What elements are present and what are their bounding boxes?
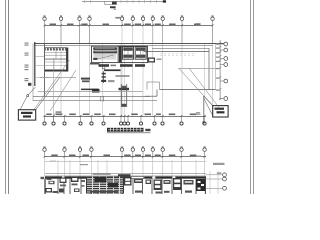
riser fitting dark blob bbox=[101, 80, 106, 82]
stair inner line 1 bbox=[45, 52, 67, 54]
small marks room3-4 gap bbox=[81, 180, 86, 182]
small label bbox=[111, 65, 117, 67]
roof left inner edge bbox=[44, 44, 46, 96]
bottom plan main dark wall band bbox=[45, 176, 206, 178]
bottom plan dimension line bbox=[45, 156, 207, 158]
left callout text row1 bbox=[21, 112, 33, 114]
dark segment at duct top bbox=[119, 88, 130, 90]
landing rect below stair bbox=[45, 59, 67, 71]
roof slope diagonal right B bbox=[189, 68, 219, 108]
label text under shaft 1 bbox=[120, 64, 133, 67]
left border outer line bbox=[5, 0, 7, 194]
left wing hline 1 bbox=[35, 55, 45, 57]
text above tick bbox=[196, 112, 200, 113]
machine room divider wall line bbox=[116, 46, 118, 62]
left callout box bbox=[18, 110, 35, 120]
dark filled block (shaft) bbox=[92, 89, 100, 93]
roof right edge outer bbox=[215, 44, 217, 90]
bottom dim line ticks bbox=[44, 156, 46, 158]
stair diagonal bbox=[96, 55, 113, 59]
hline y92 long bbox=[38, 91, 143, 93]
right border outer line bbox=[253, 0, 255, 194]
dark horizontal segment lower center bbox=[81, 89, 98, 91]
top detail end dot bbox=[163, 0, 166, 2]
right dimension vertical line bbox=[219, 40, 221, 100]
left stem tick bbox=[54, 113, 63, 115]
label text under machine room left bbox=[99, 64, 110, 67]
landing inner line bbox=[45, 65, 67, 67]
note text right of riser bbox=[116, 75, 130, 77]
left callout upper leader bbox=[28, 87, 35, 94]
roof step vertical bbox=[156, 90, 158, 97]
top plan lower dimension line bbox=[45, 116, 207, 118]
left dimension column texts bbox=[25, 43, 29, 44]
small shaft room 1 bbox=[123, 47, 134, 60]
roof lower-left bottom edge bbox=[33, 96, 150, 98]
roof left edge wall (dark) bbox=[34, 42, 36, 86]
top detail ticks bbox=[84, 0, 86, 3]
stair block hatched top band bbox=[45, 48, 66, 50]
top detail section line bbox=[82, 0, 165, 2]
left wing hline 3 bbox=[35, 76, 50, 78]
text row B left-center bbox=[82, 80, 90, 82]
roof stepped bottom edge bbox=[160, 89, 216, 91]
machine room stair hatch (light) bbox=[94, 54, 117, 56]
wall offset line A bbox=[45, 173, 206, 175]
top detail box dark hatch bbox=[112, 2, 116, 5]
dark vertical wall right of stair bbox=[66, 48, 68, 72]
riser valve 1 bbox=[102, 73, 106, 75]
left dim dark mark bbox=[28, 83, 31, 86]
roof step hline y82 bbox=[147, 81, 160, 83]
top plan grid bubbles row (top) bbox=[43, 17, 46, 20]
dark mark bottom-left of machine room bbox=[93, 58, 97, 60]
roof top edge line 2 bbox=[34, 45, 213, 47]
dark wall segment center bbox=[104, 69, 121, 71]
top detail label small text bbox=[114, 9, 116, 10]
bottom plan vertical grid lines bbox=[44, 157, 46, 176]
small text above wall bbox=[93, 173, 111, 175]
balcony line upper bbox=[45, 161, 206, 163]
roof step vline x159 bbox=[159, 82, 161, 90]
dark end room block bbox=[196, 179, 205, 191]
left wing hline 2 bbox=[35, 65, 45, 67]
stair block outline bbox=[45, 48, 67, 60]
roof right edge main bbox=[208, 48, 210, 89]
right dim ticks and texts bbox=[219, 42, 221, 44]
machine room hatched text block row1 bbox=[93, 47, 117, 50]
note text above dim line bbox=[115, 17, 121, 19]
right callout box bbox=[213, 106, 228, 117]
top dim line ticks bbox=[44, 24, 46, 26]
roof lowest outline line bbox=[33, 100, 157, 102]
top plan upper dimension line bbox=[45, 25, 214, 27]
gray text right of small structure bbox=[157, 59, 162, 61]
stair inner line 2 bbox=[45, 54, 67, 56]
right callout text row1 bbox=[215, 108, 225, 110]
small vert pair a bbox=[100, 96, 102, 102]
tall duct rect center bbox=[120, 84, 122, 107]
label text under shaft 2 bbox=[135, 64, 145, 67]
left callout long leader bbox=[36, 77, 60, 110]
roof slope diagonal right A bbox=[179, 68, 213, 106]
top plan vertical grid lines (bottom set) bbox=[102, 44, 104, 116]
roof right top line A bbox=[152, 48, 209, 50]
right side axis bubbles bbox=[224, 42, 228, 46]
right vertical tie lines bbox=[209, 171, 211, 194]
left callout text row2 bbox=[23, 115, 31, 117]
hline y77 left wing bbox=[40, 77, 76, 79]
small roof structure right of machine room bbox=[148, 58, 155, 63]
landing inner line 0 bbox=[45, 61, 67, 63]
title underline bbox=[107, 132, 151, 134]
title scale 1:50 bbox=[145, 129, 150, 131]
wall offset line B bbox=[45, 175, 206, 177]
bottom plan room walls vertical bbox=[44, 179, 46, 194]
machine room divider wall (thick) bbox=[118, 47, 121, 63]
small vert pair b bbox=[102, 96, 104, 102]
roof step vline x147 bbox=[146, 82, 148, 90]
small dashes above wall left bbox=[80, 164, 88, 165]
roof top edge line 1 bbox=[34, 43, 224, 45]
right end dim number bbox=[196, 23, 201, 24]
small text left of labels bbox=[90, 63, 100, 65]
room fixtures / furniture dark blobs bbox=[47, 177, 52, 180]
top detail box bbox=[105, 1, 117, 4]
small shaft room 2 bbox=[135, 47, 146, 60]
left callout circle bbox=[27, 95, 29, 97]
roof slope diagonal left A bbox=[33, 60, 70, 111]
machine room hatched text block row2 bbox=[93, 51, 117, 54]
right callout leader B bbox=[204, 98, 213, 116]
left stem line x53 bbox=[53, 58, 55, 122]
riser valve 2 bbox=[102, 76, 106, 78]
small text block center bbox=[108, 80, 115, 82]
bottom plan grid bubbles row bbox=[43, 148, 46, 151]
top dim numbers bbox=[50, 24, 57, 26]
bottom plan extra verticals bbox=[57, 160, 59, 176]
pipe riser vertical bbox=[103, 71, 105, 83]
left wing vertical bbox=[32, 44, 34, 101]
dim text above right ticks bbox=[217, 172, 222, 173]
top grid dark stubs above roof bbox=[44, 25, 46, 43]
bottom plan dim numbers bbox=[51, 155, 58, 157]
left edge tick marks bbox=[41, 177, 45, 179]
landing divider vertical bbox=[53, 59, 55, 71]
right callout leader A bbox=[204, 96, 213, 106]
ridge dash line 1 bbox=[160, 53, 196, 55]
machine room outer walls bbox=[92, 46, 148, 62]
top plan bottom bubble row bbox=[43, 122, 46, 125]
left stem text bbox=[56, 111, 62, 113]
wall protrusion above band bbox=[118, 174, 131, 176]
left callout lower leader bbox=[20, 97, 27, 110]
top plan lower dim ticks bbox=[44, 115, 46, 117]
note text right of dim line bbox=[213, 163, 225, 165]
dark wall line under landing bbox=[45, 70, 67, 72]
left border inner line bbox=[8, 0, 10, 194]
stair core dense text block bbox=[86, 177, 124, 194]
right callout vertical line bbox=[203, 96, 205, 121]
lower dim numbers bbox=[46, 114, 51, 116]
small text top of right room bbox=[197, 156, 202, 157]
roof right top line B bbox=[144, 51, 210, 53]
roof step bottom bbox=[145, 95, 157, 97]
stair divider vertical bbox=[55, 48, 57, 60]
roof section line y68 bbox=[178, 68, 215, 70]
ridge dash line 2 bbox=[160, 55, 196, 57]
drawing title text bbox=[107, 128, 144, 132]
text row bottom of stair bbox=[90, 191, 118, 193]
top detail label text bbox=[110, 6, 116, 8]
text row A left-center bbox=[81, 78, 90, 80]
pipe riser circle bbox=[102, 66, 105, 69]
top plan vertical grid lines bbox=[44, 25, 46, 116]
bottom plan right side bubbles bbox=[223, 173, 227, 177]
roof slope diagonal left B bbox=[50, 70, 76, 111]
faint text above plan A bbox=[50, 161, 56, 162]
right border inner line bbox=[250, 0, 252, 194]
right callout text row2 bbox=[217, 111, 225, 113]
tick left of right callout bbox=[195, 114, 201, 116]
right callout arrow foot bbox=[202, 121, 204, 123]
